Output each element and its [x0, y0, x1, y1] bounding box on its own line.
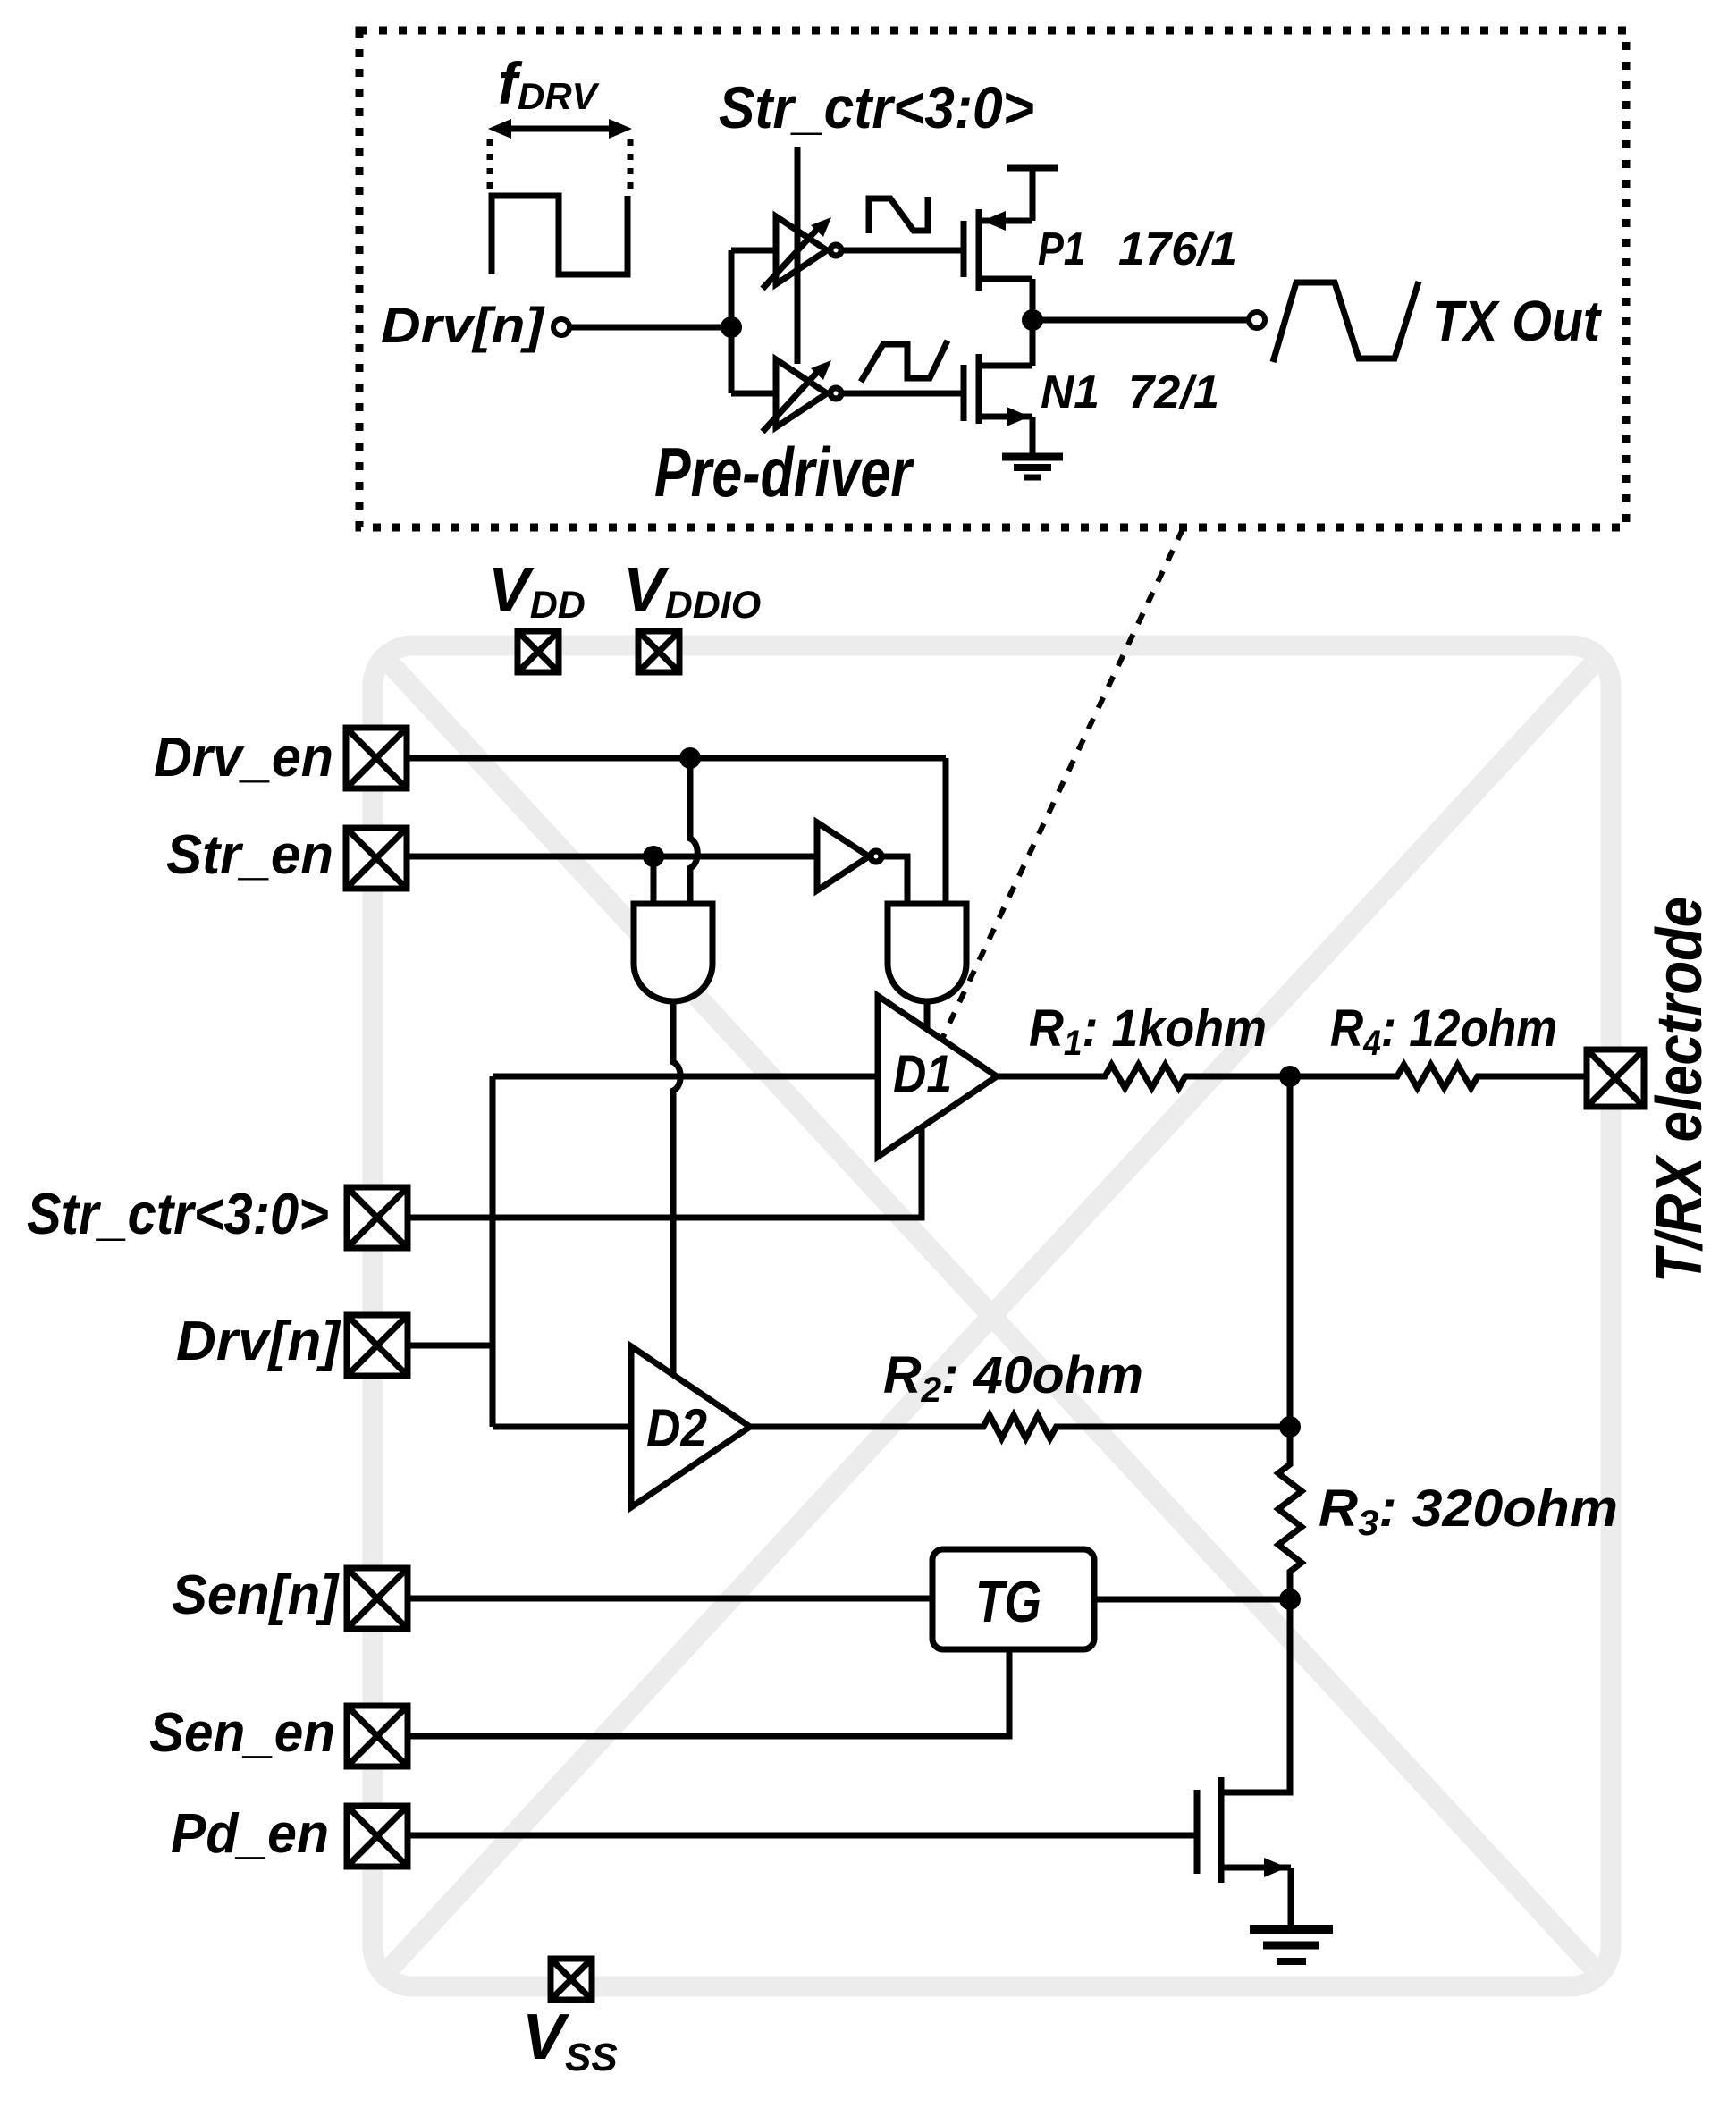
resistor R2 [750, 1415, 1290, 1438]
resistor R4 [1290, 1065, 1587, 1088]
wire Drv[n] to split [569, 325, 731, 331]
buffer D2 [631, 1346, 750, 1507]
wire main node vertical [1287, 1076, 1294, 1464]
svg-text:P1: P1 [1038, 223, 1085, 275]
wire A2 output to D1 enable [924, 1000, 931, 1030]
f_DRV dimension arrow [488, 119, 632, 191]
wire to TX Out [1032, 317, 1249, 324]
node R1/R4 junction [1279, 1066, 1301, 1087]
resistor R3 [1278, 1427, 1302, 1599]
svg-text:TG: TG [975, 1568, 1041, 1634]
node split junction [721, 316, 742, 338]
svg-text:Str_ctr<3:0>: Str_ctr<3:0> [719, 74, 1034, 140]
TX Out waveform [1273, 282, 1419, 362]
f_DRV square waveform [492, 196, 628, 274]
TG block [932, 1549, 1094, 1649]
wire Drv[n] pad to bus [408, 1343, 493, 1349]
svg-text:Drv[n]: Drv[n] [176, 1311, 341, 1372]
transistor P1 [964, 209, 1032, 320]
waveform falling edge (P1 gate) [869, 197, 928, 233]
transistor N1 [964, 320, 1032, 457]
resistor R1 [997, 1065, 1290, 1088]
wire U1 output to A2 left input [883, 856, 907, 904]
pad V_DD [518, 631, 559, 672]
pad V_SS [551, 1959, 592, 2000]
wire Str_en [407, 854, 817, 860]
node TX Out terminal [1249, 312, 1265, 328]
tri-state inverter upper (pre-driver) [763, 216, 841, 289]
wire input bus vertical [490, 1076, 496, 1427]
wire Str_ctr pad to D1 strength input [408, 1127, 922, 1218]
wire A1 output to D2 enable (with hop at D1 input wire) [673, 1000, 680, 1375]
ground (N1 source) [1002, 457, 1063, 477]
svg-text:Str_en: Str_en [166, 824, 333, 886]
wire Str_en junction down to A1 [651, 856, 657, 904]
node R2 junction [1279, 1416, 1301, 1438]
chip outline (gray box with X) [373, 645, 1611, 1986]
pad V_DDIO [638, 631, 679, 672]
wire main node to M1 drain [1221, 1599, 1290, 1792]
svg-text:Pd_en: Pd_en [171, 1803, 329, 1865]
svg-text:72/1: 72/1 [1128, 367, 1219, 418]
wire Drv_en to A2 right input [943, 758, 949, 904]
wire lower inverter to N1 gate [842, 391, 964, 397]
svg-text:Str_ctr<3:0>: Str_ctr<3:0> [27, 1181, 329, 1246]
and gate A2 [888, 904, 966, 1001]
wire Drv_en junction down to A1 (with hop) [690, 758, 697, 904]
wire upper inverter to P1 gate [842, 248, 964, 254]
wire Drv_en [407, 755, 946, 762]
svg-text:T/RX electrode: T/RX electrode [1644, 897, 1715, 1283]
wire input bus: D2 input [493, 1424, 631, 1430]
pre-driver dashed box [359, 30, 1626, 527]
wire input bus: D1 input [493, 1074, 878, 1080]
node Drv_en junction [679, 747, 701, 769]
svg-text:176/1: 176/1 [1118, 223, 1237, 275]
node R3/TG junction [1279, 1589, 1301, 1610]
node Str_en junction [643, 846, 664, 867]
pad Pd_en [347, 1806, 408, 1867]
wire split vertical [729, 250, 735, 393]
pad Drv[n] [347, 1315, 408, 1376]
transistor M1 (power-down) [1197, 1777, 1291, 1929]
pad Sen_en [347, 1706, 408, 1767]
wire Sen[n] to TG [408, 1596, 932, 1602]
inverter U1 (Str_en) [817, 822, 881, 890]
pad T/RX electrode [1587, 1050, 1644, 1107]
svg-text:Sen_en: Sen_en [149, 1702, 335, 1764]
and gate A1 [634, 904, 712, 1001]
pad Drv_en [346, 728, 407, 788]
ground (M1 source) [1250, 1929, 1333, 1961]
wire Sen_en to TG bottom [408, 1649, 1009, 1736]
svg-text:Drv_en: Drv_en [154, 727, 333, 788]
wire to lower inverter [731, 391, 776, 397]
node inverter output junction [1022, 309, 1043, 331]
pad Sen[n] [347, 1568, 408, 1629]
pad Str_ctr<3:0> [347, 1187, 408, 1248]
vdd rail (P1 source) [1007, 165, 1058, 172]
buffer D1 [878, 996, 997, 1157]
svg-text:D1: D1 [893, 1044, 952, 1104]
svg-text:Pre-driver: Pre-driver [654, 433, 914, 511]
pad Str_en [346, 828, 407, 889]
waveform rising edge (N1 gate) [861, 341, 948, 382]
wire Str_ctr control line [795, 147, 801, 364]
tri-state inverter lower (pre-driver) [763, 359, 841, 432]
svg-text:D2: D2 [646, 1398, 707, 1458]
svg-text:N1: N1 [1041, 367, 1100, 418]
svg-text:Sen[n]: Sen[n] [172, 1564, 340, 1626]
wire TG to main node [1094, 1597, 1290, 1603]
dashed callout line to D1 [933, 529, 1183, 1058]
wire Pd_en to M1 gate [408, 1833, 1197, 1839]
svg-text:TX Out: TX Out [1432, 289, 1602, 353]
svg-text:Drv[n]: Drv[n] [381, 297, 546, 353]
wire to upper inverter [731, 248, 776, 254]
